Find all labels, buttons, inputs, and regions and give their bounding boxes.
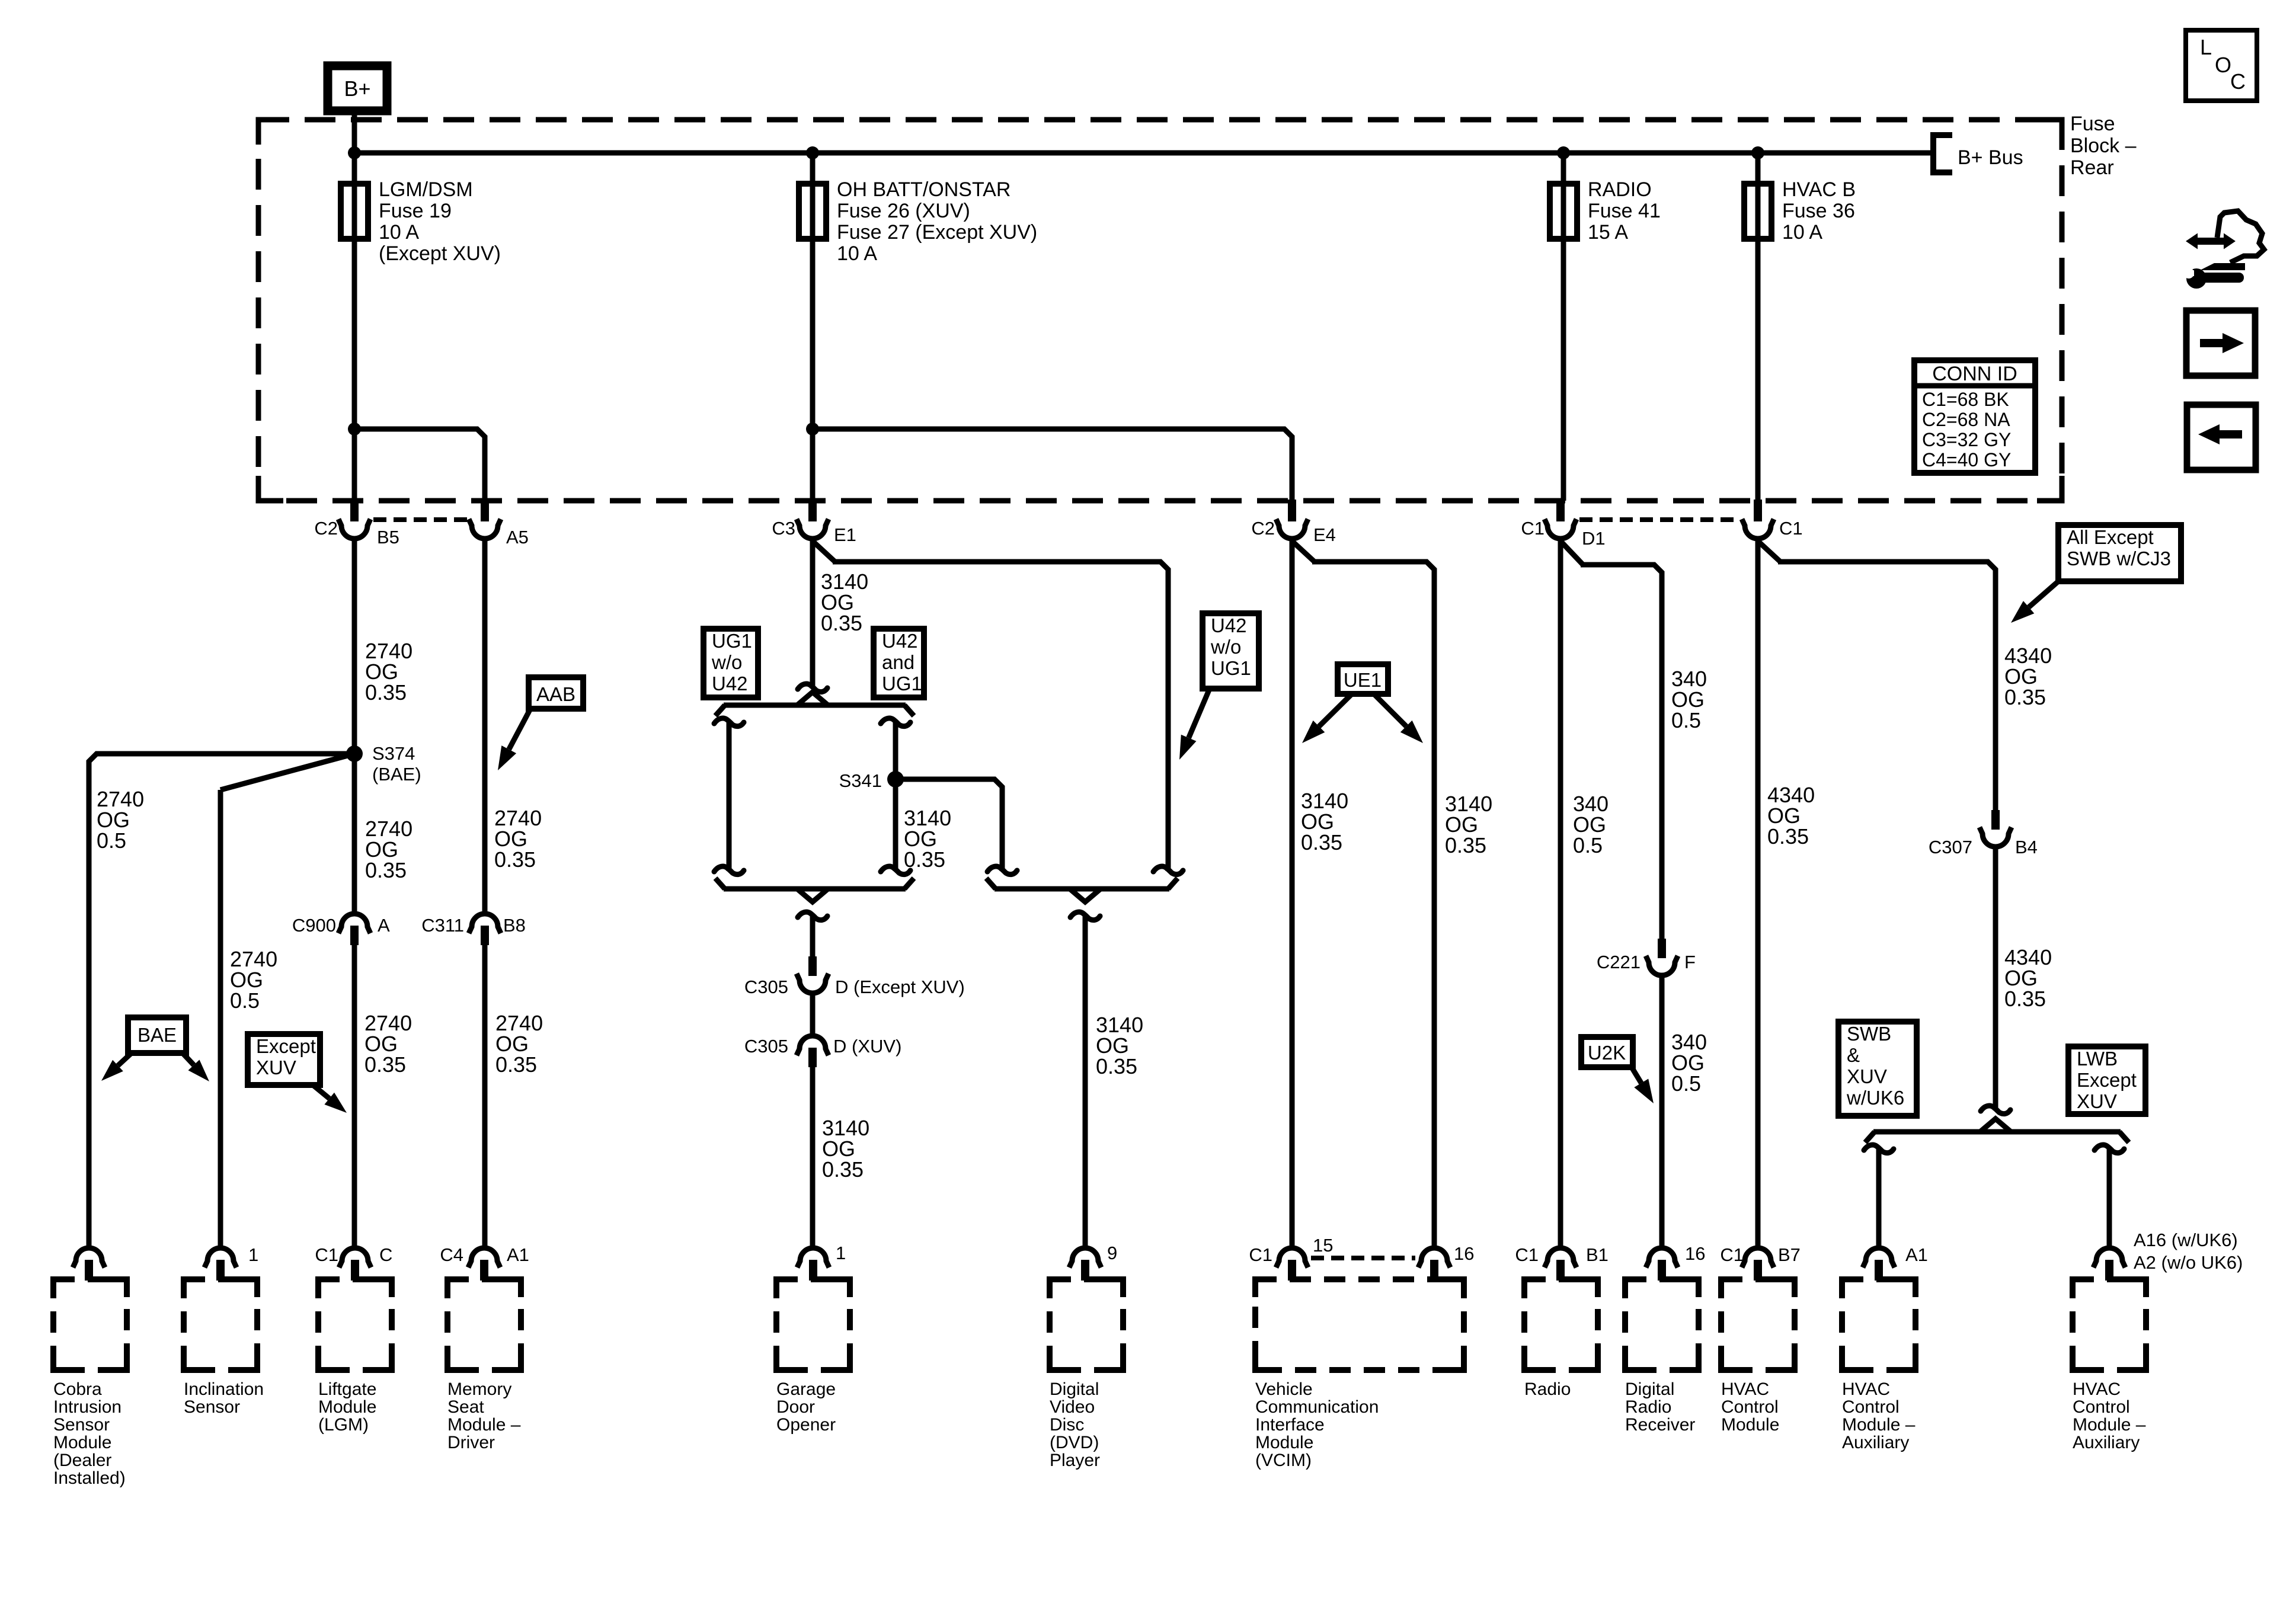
svg-text:Fuse 19: Fuse 19 (379, 200, 452, 222)
svg-text:Garage: Garage (776, 1379, 836, 1399)
svg-text:0.5: 0.5 (97, 828, 126, 853)
svg-text:C1: C1 (1515, 1244, 1539, 1265)
svg-text:XUV: XUV (1847, 1065, 1887, 1087)
svg-text:A1: A1 (507, 1244, 529, 1265)
svg-text:C1: C1 (315, 1244, 338, 1265)
svg-text:0.35: 0.35 (1445, 833, 1486, 857)
svg-text:BAE: BAE (137, 1024, 177, 1046)
svg-text:Module: Module (1721, 1415, 1779, 1435)
svg-text:0.35: 0.35 (494, 847, 536, 872)
svg-text:C1=68 BK: C1=68 BK (1922, 389, 2009, 410)
svg-text:0.35: 0.35 (1301, 830, 1342, 854)
svg-text:(BAE): (BAE) (372, 764, 421, 785)
svg-text:LWB: LWB (2077, 1048, 2118, 1070)
svg-text:E1: E1 (834, 524, 856, 545)
svg-text:HVAC B: HVAC B (1782, 178, 1856, 201)
svg-text:Fuse 41: Fuse 41 (1588, 200, 1661, 222)
svg-text:C2: C2 (314, 518, 338, 539)
svg-text:OH BATT/ONSTAR: OH BATT/ONSTAR (837, 178, 1011, 201)
svg-text:&: & (1847, 1044, 1860, 1066)
svg-text:B1: B1 (1586, 1244, 1609, 1265)
svg-text:S374: S374 (372, 743, 415, 764)
svg-text:0.35: 0.35 (1096, 1054, 1137, 1078)
svg-text:Installed): Installed) (53, 1468, 126, 1488)
svg-text:RADIO: RADIO (1588, 178, 1652, 201)
svg-text:16: 16 (1454, 1243, 1474, 1264)
svg-text:Receiver: Receiver (1625, 1415, 1695, 1435)
svg-text:(Except XUV): (Except XUV) (379, 242, 501, 265)
svg-text:C1: C1 (1249, 1244, 1272, 1265)
svg-text:SWB: SWB (1847, 1023, 1891, 1045)
svg-text:0.5: 0.5 (1671, 1071, 1701, 1096)
svg-text:Module: Module (1255, 1433, 1313, 1452)
svg-text:0.35: 0.35 (821, 611, 862, 635)
svg-text:Opener: Opener (776, 1415, 836, 1435)
svg-text:Auxiliary: Auxiliary (2073, 1433, 2140, 1452)
svg-text:9: 9 (1107, 1243, 1117, 1263)
svg-text:C4=40 GY: C4=40 GY (1922, 449, 2011, 470)
svg-text:AAB: AAB (536, 683, 575, 705)
svg-text:Radio: Radio (1524, 1379, 1571, 1399)
svg-text:Sensor: Sensor (184, 1397, 240, 1417)
svg-text:0.5: 0.5 (230, 988, 260, 1013)
svg-text:HVAC: HVAC (1842, 1379, 1890, 1399)
svg-text:1: 1 (248, 1244, 258, 1265)
svg-text:Cobra: Cobra (53, 1379, 102, 1399)
svg-text:0.35: 0.35 (2004, 987, 2046, 1011)
svg-text:Communication: Communication (1255, 1397, 1379, 1417)
svg-text:L: L (2200, 35, 2212, 59)
svg-text:C: C (379, 1244, 392, 1265)
svg-text:w/o: w/o (1210, 636, 1241, 658)
svg-text:Digital: Digital (1050, 1379, 1099, 1399)
svg-text:Rear: Rear (2070, 156, 2114, 179)
svg-text:Block –: Block – (2070, 135, 2137, 157)
svg-text:B8: B8 (503, 915, 526, 936)
svg-text:Fuse: Fuse (2070, 113, 2115, 135)
svg-text:U42: U42 (1211, 614, 1247, 636)
svg-text:HVAC: HVAC (1721, 1379, 1769, 1399)
svg-text:Interface: Interface (1255, 1415, 1325, 1435)
svg-text:C221: C221 (1597, 952, 1641, 972)
svg-text:10 A: 10 A (837, 242, 877, 265)
svg-text:Control: Control (2073, 1397, 2130, 1417)
svg-text:CONN ID: CONN ID (1932, 363, 2017, 385)
svg-text:0.35: 0.35 (495, 1052, 537, 1077)
svg-text:Module –: Module – (1842, 1415, 1916, 1435)
svg-text:Module: Module (318, 1397, 376, 1417)
svg-text:Player: Player (1050, 1451, 1100, 1470)
svg-text:UE1: UE1 (1344, 669, 1382, 691)
svg-text:Fuse 36: Fuse 36 (1782, 200, 1855, 222)
svg-text:Module –: Module – (447, 1415, 521, 1435)
svg-text:C305: C305 (744, 1036, 788, 1057)
svg-text:UG1: UG1 (1211, 657, 1251, 679)
svg-text:A: A (378, 915, 390, 936)
svg-text:LGM/DSM: LGM/DSM (379, 178, 473, 201)
svg-text:O: O (2215, 53, 2231, 77)
svg-text:Video: Video (1050, 1397, 1095, 1417)
svg-text:0.35: 0.35 (1767, 824, 1809, 849)
svg-text:0.5: 0.5 (1671, 708, 1701, 732)
svg-text:(Dealer: (Dealer (53, 1451, 111, 1470)
svg-text:Module: Module (53, 1433, 111, 1452)
svg-text:Control: Control (1721, 1397, 1779, 1417)
svg-text:10 A: 10 A (1782, 221, 1822, 244)
svg-text:0.35: 0.35 (365, 680, 407, 705)
svg-text:Control: Control (1842, 1397, 1900, 1417)
svg-text:A1: A1 (1905, 1244, 1928, 1265)
svg-text:C4: C4 (440, 1244, 463, 1265)
svg-text:(VCIM): (VCIM) (1255, 1451, 1312, 1470)
svg-text:10 A: 10 A (379, 221, 419, 244)
svg-text:w/UK6: w/UK6 (1846, 1087, 1904, 1109)
svg-text:Module –: Module – (2073, 1415, 2146, 1435)
svg-text:15: 15 (1313, 1235, 1333, 1256)
svg-text:U2K: U2K (1588, 1042, 1626, 1064)
svg-text:HVAC: HVAC (2073, 1379, 2121, 1399)
svg-text:C307: C307 (1929, 837, 1972, 857)
svg-text:D1: D1 (1582, 528, 1606, 549)
svg-text:Except: Except (256, 1035, 316, 1057)
svg-text:A2 (w/o UK6): A2 (w/o UK6) (2134, 1252, 2243, 1273)
svg-text:Memory: Memory (447, 1379, 511, 1399)
svg-text:C3: C3 (772, 518, 795, 539)
svg-text:Door: Door (776, 1397, 815, 1417)
svg-text:All Except: All Except (2067, 526, 2154, 548)
svg-text:C2=68 NA: C2=68 NA (1922, 409, 2010, 430)
svg-text:B+: B+ (344, 76, 370, 101)
svg-text:0.35: 0.35 (2004, 685, 2046, 709)
svg-text:A5: A5 (506, 527, 529, 548)
svg-text:Auxiliary: Auxiliary (1842, 1433, 1909, 1452)
svg-text:0.35: 0.35 (822, 1157, 864, 1182)
svg-text:C2: C2 (1251, 518, 1275, 539)
svg-text:B+ Bus: B+ Bus (1958, 146, 2023, 169)
svg-text:XUV: XUV (2077, 1090, 2117, 1112)
svg-text:Fuse 26 (XUV): Fuse 26 (XUV) (837, 200, 970, 222)
svg-text:UG1: UG1 (712, 630, 752, 652)
svg-text:(DVD): (DVD) (1050, 1433, 1099, 1452)
svg-text:C: C (2230, 69, 2246, 94)
svg-text:Digital: Digital (1625, 1379, 1674, 1399)
svg-text:Sensor: Sensor (53, 1415, 110, 1435)
svg-text:F: F (1684, 952, 1696, 972)
svg-text:A16 (w/UK6): A16 (w/UK6) (2134, 1230, 2238, 1250)
svg-text:1: 1 (836, 1243, 846, 1263)
svg-text:B5: B5 (377, 527, 399, 548)
svg-text:0.35: 0.35 (365, 858, 407, 882)
svg-text:C900: C900 (292, 915, 336, 936)
svg-text:SWB w/CJ3: SWB w/CJ3 (2067, 548, 2171, 569)
svg-text:C1: C1 (1521, 518, 1544, 539)
svg-text:XUV: XUV (256, 1057, 296, 1078)
svg-text:0.5: 0.5 (1573, 833, 1603, 857)
svg-text:Intrusion: Intrusion (53, 1397, 121, 1417)
svg-text:UG1: UG1 (882, 673, 922, 694)
svg-text:Liftgate: Liftgate (318, 1379, 376, 1399)
svg-text:16: 16 (1685, 1243, 1705, 1264)
svg-text:0.35: 0.35 (364, 1052, 406, 1077)
svg-text:Radio: Radio (1625, 1397, 1671, 1417)
svg-text:B4: B4 (2015, 837, 2038, 857)
svg-text:E4: E4 (1313, 524, 1336, 545)
svg-text:D (Except XUV): D (Except XUV) (835, 977, 965, 997)
svg-text:Except: Except (2077, 1069, 2137, 1091)
svg-text:S341: S341 (839, 770, 882, 791)
svg-text:U42: U42 (712, 673, 748, 694)
svg-text:C305: C305 (744, 977, 788, 997)
svg-text:Inclination: Inclination (184, 1379, 264, 1399)
svg-text:(LGM): (LGM) (318, 1415, 369, 1435)
svg-text:C311: C311 (421, 915, 464, 936)
svg-text:B7: B7 (1778, 1244, 1801, 1265)
svg-text:Vehicle: Vehicle (1255, 1379, 1313, 1399)
svg-text:D (XUV): D (XUV) (833, 1036, 901, 1057)
svg-text:U42: U42 (882, 630, 918, 652)
svg-text:Driver: Driver (447, 1433, 495, 1452)
svg-text:Fuse 27 (Except XUV): Fuse 27 (Except XUV) (837, 221, 1037, 244)
svg-text:C3=32 GY: C3=32 GY (1922, 429, 2011, 450)
svg-text:0.35: 0.35 (904, 847, 945, 872)
svg-text:Disc: Disc (1050, 1415, 1084, 1435)
svg-text:C1: C1 (1779, 518, 1803, 539)
svg-text:w/o: w/o (711, 651, 742, 673)
svg-text:15 A: 15 A (1588, 221, 1628, 244)
svg-text:Seat: Seat (447, 1397, 484, 1417)
svg-text:and: and (882, 651, 914, 673)
svg-text:C1: C1 (1720, 1244, 1744, 1265)
